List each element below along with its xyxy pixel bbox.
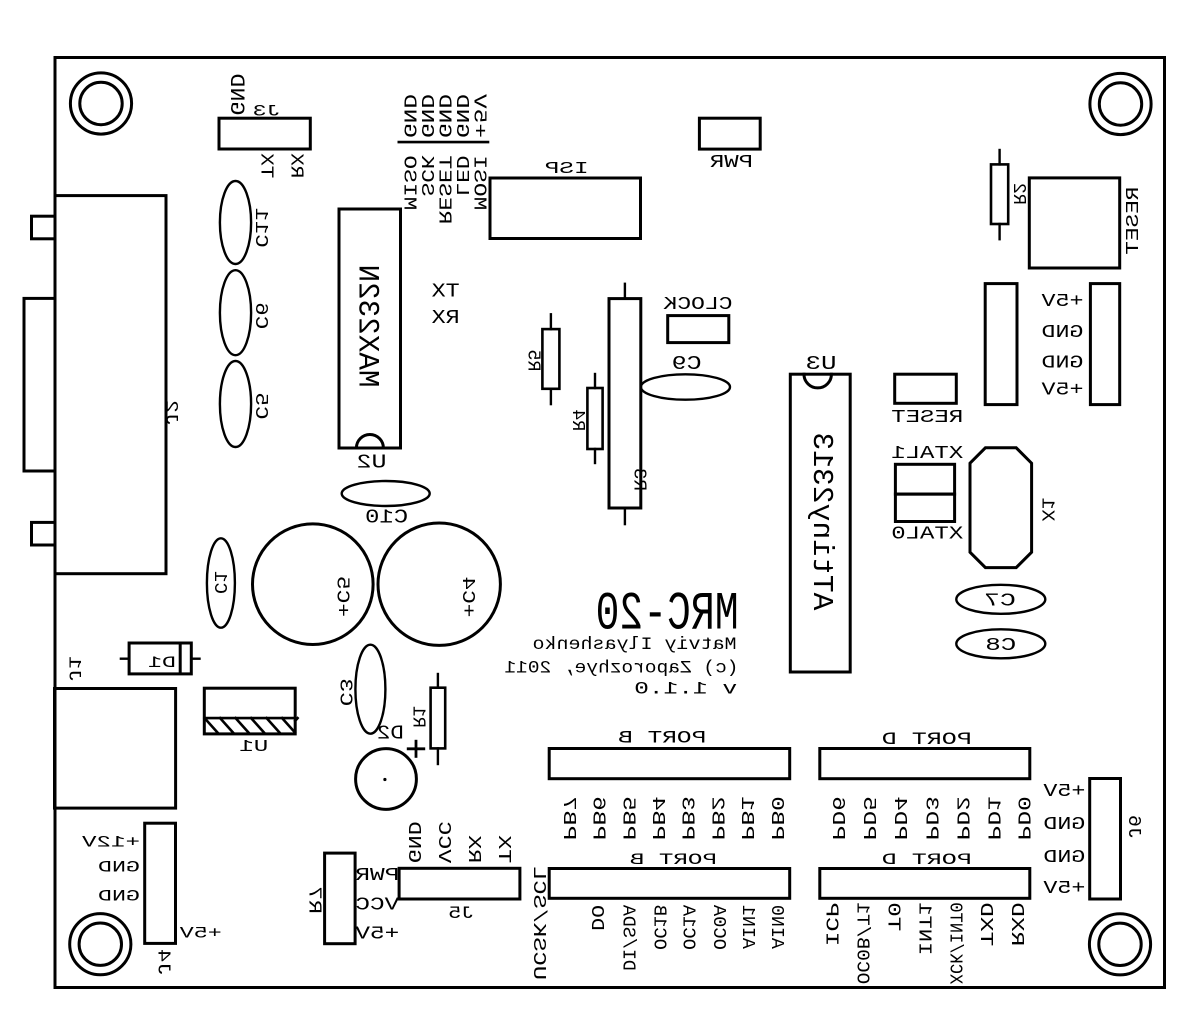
resistor R4 [587, 374, 602, 463]
label LED [451, 155, 472, 196]
label MISO [398, 155, 419, 210]
svg-text:D1: D1 [148, 654, 176, 672]
label GND (isp3) [434, 94, 455, 138]
svg-text:DI/SDA: DI/SDA [617, 904, 638, 971]
label TX (signal) [431, 280, 460, 302]
label J5 [448, 905, 474, 924]
svg-text:VCC: VCC [355, 894, 399, 915]
label PORT D (bottom) [882, 851, 972, 869]
svg-text:+5V: +5V [1042, 781, 1085, 802]
label C3 [334, 678, 355, 706]
svg-text:Matviy Ilyashenko: Matviy Ilyashenko [533, 635, 737, 655]
label J1 [64, 656, 84, 682]
svg-text:U2: U2 [357, 452, 387, 474]
led D2 anode mark [408, 741, 424, 756]
svg-text:MAX232N: MAX232N [350, 265, 384, 388]
svg-text:C3: C3 [334, 678, 355, 706]
svg-text:D2: D2 [377, 723, 404, 745]
label RX (J5) [463, 835, 484, 863]
resistor R1 [431, 674, 446, 764]
svg-text:TX: TX [431, 280, 460, 302]
svg-text:RX: RX [431, 307, 460, 329]
svg-text:GND: GND [98, 888, 140, 906]
label GND (J6a) [1043, 814, 1085, 835]
label ISP [545, 159, 589, 178]
label T0 [882, 902, 903, 931]
svg-text:+5V: +5V [1040, 291, 1083, 312]
header J6 [1090, 779, 1121, 900]
header J5 [399, 868, 520, 899]
svg-text:R7: R7 [304, 886, 325, 914]
label +5V (J4) [179, 924, 222, 942]
svg-text:PB5: PB5 [617, 796, 638, 840]
header J3 [219, 118, 310, 149]
label C11 [250, 208, 271, 248]
svg-text:ISP: ISP [545, 159, 589, 178]
svg-text:ICP: ICP [821, 902, 842, 946]
label ATtiny2313 [805, 432, 838, 610]
svg-text:C11: C11 [250, 208, 271, 248]
svg-text:GND: GND [1042, 352, 1084, 373]
capacitor C10 [342, 481, 430, 506]
header PORT D top [820, 749, 1030, 779]
header aux (blank) [985, 284, 1017, 405]
svg-text:PORT D: PORT D [882, 731, 972, 750]
header PORT B top [549, 749, 790, 779]
label PD5 [858, 796, 879, 840]
isp table divider [399, 141, 488, 144]
svg-text:XCK/INT0: XCK/INT0 [944, 902, 965, 984]
svg-text:R3: R3 [628, 468, 649, 491]
label RX (J3 pin) [285, 153, 306, 178]
label PORT B (top) [618, 730, 706, 749]
svg-text:v 1.1.0: v 1.1.0 [634, 680, 737, 700]
label J4 [153, 949, 174, 976]
label +5V (J6b) [1042, 878, 1085, 899]
svg-text:PWR: PWR [355, 865, 399, 886]
connector J1 [55, 689, 176, 809]
label D2 [377, 723, 404, 745]
svg-text:PB2: PB2 [706, 796, 727, 840]
pushbutton RESET [1029, 178, 1119, 268]
svg-text:GND: GND [1043, 814, 1085, 835]
svg-text:OC0B/T1: OC0B/T1 [851, 902, 872, 984]
svg-text:+12V: +12V [81, 834, 140, 852]
svg-text:OC1A: OC1A [678, 904, 699, 950]
label +5V (isp) [469, 93, 490, 138]
svg-text:PB1: PB1 [736, 796, 757, 840]
title copyright [504, 659, 738, 679]
label OC1A [678, 904, 699, 950]
label C10 [365, 507, 408, 529]
label GND (J6b) [1043, 847, 1085, 868]
label GND (isp4) [451, 94, 472, 138]
label +C5 [332, 576, 353, 617]
svg-text:GND: GND [1043, 847, 1085, 868]
mounting hole bottom-right [1089, 914, 1150, 975]
svg-text:PD0: PD0 [1013, 796, 1034, 840]
label PB2 [706, 796, 727, 840]
mounting hole top-left [70, 73, 131, 134]
svg-text:PORT D: PORT D [882, 851, 972, 869]
label INT1 [913, 902, 934, 955]
label J6 [1123, 815, 1144, 839]
label PD6 [827, 796, 848, 840]
svg-text:(c) Zaporozhye, 2011: (c) Zaporozhye, 2011 [504, 659, 738, 679]
svg-text:+5V: +5V [1040, 379, 1083, 400]
header XTAL1 [895, 464, 954, 494]
svg-text:XTAL0: XTAL0 [891, 523, 963, 545]
svg-text:PD5: PD5 [858, 796, 879, 840]
svg-text:C1: C1 [209, 571, 230, 594]
label MOSI [469, 155, 490, 210]
header ISP [490, 178, 641, 239]
label +5V (J6a) [1042, 781, 1085, 802]
svg-text:PD6: PD6 [827, 796, 848, 840]
svg-text:GND: GND [403, 821, 424, 863]
svg-text:TXD: TXD [975, 902, 996, 946]
capacitor C5 (electrolytic) [252, 524, 373, 645]
label U2 [357, 452, 387, 474]
svg-text:TX: TX [255, 153, 276, 178]
header J4 [145, 823, 176, 943]
capacitor C6 [220, 270, 251, 355]
header PORT D bottom [820, 869, 1030, 899]
label C1 [209, 571, 230, 594]
header PORT B bottom [549, 869, 790, 899]
svg-text:C6: C6 [250, 302, 271, 329]
label +5V (R7) [354, 924, 399, 945]
label D1 [148, 654, 176, 672]
label GND (rt1) [1042, 322, 1084, 343]
label PD4 [889, 796, 910, 840]
label PD1 [982, 796, 1003, 840]
svg-text:+5V: +5V [354, 924, 399, 945]
svg-text:RX: RX [463, 835, 484, 863]
title version [634, 680, 737, 700]
capacitor C8 [956, 629, 1045, 658]
label PD0 [1013, 796, 1034, 840]
label C7 [984, 589, 1016, 611]
svg-text:DO: DO [586, 905, 607, 931]
label XCK/INT0 [944, 902, 965, 984]
svg-text:R2: R2 [1008, 183, 1029, 205]
label GND (J5) [403, 821, 424, 863]
svg-text:PD4: PD4 [889, 796, 910, 840]
connector J2 D-sub face [24, 298, 55, 471]
label ICP [821, 902, 842, 946]
label +5V (rt2) [1040, 379, 1083, 400]
header PWR [699, 118, 760, 149]
label J2 [160, 400, 180, 426]
svg-text:GND: GND [1042, 322, 1084, 343]
svg-text:J3: J3 [253, 103, 281, 121]
label XTAL1 [891, 442, 963, 464]
label MAX232N [350, 265, 384, 388]
label AIN1 [737, 905, 758, 949]
label PB0 [766, 796, 787, 840]
capacitor C9 [641, 374, 730, 399]
capacitor C4 (electrolytic) [378, 523, 500, 645]
mounting hole top-right [1090, 73, 1151, 134]
svg-text:C8: C8 [985, 634, 1016, 656]
svg-text:RX: RX [285, 153, 306, 178]
label J3 [253, 103, 281, 121]
svg-text:PB3: PB3 [677, 796, 698, 840]
svg-text:OC0A: OC0A [708, 904, 729, 950]
label PORT B (bottom) [630, 851, 717, 869]
svg-text:PB6: PB6 [588, 796, 609, 840]
label RESET (isp) [434, 155, 455, 224]
label UCSK/SCL [528, 866, 549, 980]
crystal X1 [970, 448, 1032, 568]
label PD3 [920, 796, 941, 840]
connector J2 lower tab [32, 522, 56, 545]
capacitor C5 (small) [220, 361, 251, 447]
label R1 [407, 706, 428, 728]
svg-text:J4: J4 [153, 949, 174, 976]
resistor R3 [609, 284, 641, 524]
label RESET (header) [891, 406, 963, 428]
capacitor C11 [220, 181, 251, 264]
label PB3 [677, 796, 698, 840]
svg-text:C7: C7 [984, 589, 1016, 611]
label R5 [522, 350, 543, 372]
svg-text:TX: TX [493, 835, 514, 863]
label GND (J3 pin) [224, 74, 247, 116]
label SCK [416, 154, 437, 196]
svg-text:X1: X1 [1037, 498, 1058, 522]
capacitor C7 [956, 585, 1045, 614]
header XTAL0 [895, 494, 954, 521]
header CLOCK [668, 316, 729, 343]
svg-text:+C4: +C4 [457, 576, 478, 617]
svg-text:ATtiny2313: ATtiny2313 [805, 432, 838, 610]
label +12V (J4) [81, 834, 140, 852]
svg-text:RESET: RESET [891, 406, 963, 428]
label U1 [239, 738, 268, 757]
connector J2 body [55, 196, 166, 574]
label GND (isp1) [398, 94, 419, 138]
label PB5 [617, 796, 638, 840]
label PB6 [588, 796, 609, 840]
label C6 [250, 302, 271, 329]
svg-text:PD3: PD3 [920, 796, 941, 840]
label VCC (J5) [433, 821, 454, 863]
label CLOCK [663, 293, 733, 315]
IC U3 outline [790, 374, 850, 672]
resistor R2 [991, 150, 1008, 239]
label C8 [985, 634, 1016, 656]
svg-text:UCSK/SCL: UCSK/SCL [528, 866, 549, 980]
label DO [586, 905, 607, 931]
svg-text:+5V: +5V [469, 93, 490, 138]
svg-text:VCC: VCC [433, 821, 454, 863]
label PD2 [951, 796, 972, 840]
label C5 [250, 393, 271, 420]
mounting hole bottom-left [70, 914, 131, 975]
label GND (J4b) [98, 888, 140, 906]
label DI/SDA [617, 904, 638, 971]
svg-text:MOSI: MOSI [469, 155, 490, 210]
resistor R7 [325, 853, 356, 944]
label TX (J3 pin) [255, 153, 276, 178]
svg-text:T0: T0 [882, 902, 903, 931]
label OC0A [708, 904, 729, 950]
svg-text:GND: GND [224, 74, 247, 116]
diode D1 [121, 643, 200, 674]
capacitor C3 [355, 645, 385, 734]
svg-text:J2: J2 [160, 400, 180, 426]
label RX (signal) [431, 307, 460, 329]
label +C4 [457, 576, 478, 617]
svg-text:R4: R4 [567, 409, 588, 431]
connector J2 upper tab [32, 216, 56, 239]
svg-text:U3: U3 [806, 353, 837, 375]
title author [533, 635, 737, 655]
svg-text:R1: R1 [407, 706, 428, 728]
label PB7 [558, 796, 579, 840]
svg-text:+5V: +5V [1042, 878, 1085, 899]
title MRC-20 [596, 584, 739, 645]
svg-text:OC1B: OC1B [648, 905, 669, 950]
label PB1 [736, 796, 757, 840]
label +5V (rt1) [1040, 291, 1083, 312]
label R2 [1008, 183, 1029, 205]
header +5V/GND right-top [1090, 284, 1119, 405]
label GND (J4a) [98, 859, 140, 877]
label PORT D (top) [882, 731, 972, 750]
svg-text:AIN1: AIN1 [737, 905, 758, 949]
label R3 [628, 468, 649, 491]
led D2 [356, 749, 417, 810]
svg-text:+5V: +5V [179, 924, 222, 942]
label VCC (R7) [355, 894, 399, 915]
label GND (isp2) [416, 94, 437, 138]
svg-text:XTAL1: XTAL1 [891, 442, 963, 464]
svg-text:PD1: PD1 [982, 796, 1003, 840]
label GND (rt2) [1042, 352, 1084, 373]
label OC0B/T1 [851, 902, 872, 984]
label TX (J5) [493, 835, 514, 863]
label PWR [710, 153, 753, 173]
svg-text:RXD: RXD [1006, 902, 1027, 946]
label R4 [567, 409, 588, 431]
svg-text:J1: J1 [64, 656, 84, 682]
svg-text:CLOCK: CLOCK [663, 293, 733, 315]
svg-text:GND: GND [98, 859, 140, 877]
svg-text:J6: J6 [1123, 815, 1144, 839]
capacitor C1 [207, 538, 235, 627]
svg-text:INT1: INT1 [913, 902, 934, 955]
label R7 [304, 886, 325, 914]
svg-text:PORT B: PORT B [630, 851, 717, 869]
label OC1B [648, 905, 669, 950]
svg-text:C10: C10 [365, 507, 408, 529]
svg-text:AIN0: AIN0 [766, 905, 787, 949]
header RESET [895, 374, 957, 403]
IC U2 outline [339, 209, 401, 448]
regulator U1 [204, 688, 297, 734]
svg-text:+C5: +C5 [332, 576, 353, 617]
label RESET (button) [1123, 187, 1144, 255]
svg-text:PD2: PD2 [951, 796, 972, 840]
svg-text:PORT B: PORT B [618, 730, 706, 749]
label PWR (R7) [355, 865, 399, 886]
svg-text:R5: R5 [522, 350, 543, 372]
svg-text:C9: C9 [672, 353, 702, 375]
svg-text:J5: J5 [448, 905, 474, 924]
svg-text:PB0: PB0 [766, 796, 787, 840]
svg-text:RESET: RESET [1123, 187, 1144, 255]
svg-text:PB4: PB4 [647, 796, 668, 840]
label AIN0 [766, 905, 787, 949]
svg-text:C5: C5 [250, 393, 271, 420]
label XTAL0 [891, 523, 963, 545]
label TXD [975, 902, 996, 946]
svg-text:PB7: PB7 [558, 796, 579, 840]
label X1 [1037, 498, 1058, 522]
label U3 [806, 353, 837, 375]
label RXD [1006, 902, 1027, 946]
resistor R5 [542, 314, 559, 404]
svg-text:PWR: PWR [710, 153, 753, 173]
label PB4 [647, 796, 668, 840]
label C9 [672, 353, 702, 375]
svg-text:U1: U1 [239, 738, 268, 757]
